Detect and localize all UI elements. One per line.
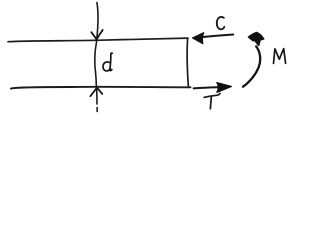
force C arrow shaft	[203, 35, 233, 38]
dimension line between flanges	[95, 42, 97, 88]
dimension extension line above	[97, 3, 98, 39]
label d	[103, 62, 110, 71]
dimension tail dash	[96, 108, 98, 112]
arrowhead pointing down at top flange	[91, 30, 102, 40]
label T	[204, 94, 220, 98]
force T arrowhead (points right)	[217, 83, 232, 93]
force T arrow shaft	[194, 87, 219, 88]
label M	[274, 49, 286, 64]
bottom flange line	[11, 87, 191, 89]
label C	[217, 17, 225, 29]
top flange line	[8, 38, 188, 42]
arrowhead pointing up at bottom flange	[90, 88, 102, 97]
right edge of member	[187, 38, 188, 87]
force C arrowhead (points left)	[192, 33, 204, 44]
moment M arc	[243, 46, 260, 86]
moment M arrowhead	[248, 32, 263, 45]
dimension extension line below	[96, 90, 98, 105]
